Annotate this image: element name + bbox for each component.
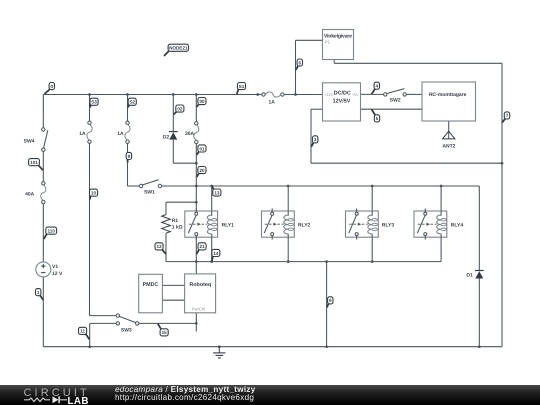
ground symbol (213, 347, 225, 358)
svg-text:14: 14 (213, 251, 219, 256)
fuse F 1A on bus (262, 92, 284, 106)
wire R1 branch (166, 202, 196, 261)
wire SW2 to RC receiver (406, 93, 422, 95)
svg-text:7: 7 (506, 113, 509, 118)
junction dots on +12V bus (88, 93, 297, 96)
svg-text:40A: 40A (25, 192, 35, 198)
wire S2 column (128, 95, 140, 187)
svg-text:15: 15 (162, 330, 168, 335)
svg-text:R1: R1 (172, 218, 179, 224)
wire RLY2 coil (287, 186, 289, 262)
resistor R1 1k (162, 215, 183, 234)
svg-text:SW1: SW1 (144, 189, 155, 195)
wire node 9 ground branch (326, 262, 328, 347)
junction dots on coil bottom rail (195, 260, 374, 263)
wire ANT2 stem (448, 121, 450, 139)
antenna ANT2 (442, 131, 455, 150)
module PMDC motor (139, 274, 163, 313)
module DC/DC converter 12V/5V (323, 83, 361, 121)
svg-text:V1: V1 (52, 264, 58, 270)
node 3 (311, 136, 318, 147)
svg-text:21: 21 (200, 244, 206, 249)
svg-text:12: 12 (157, 244, 163, 249)
fuse F 30A (185, 122, 199, 144)
wire RLY4 coil (440, 186, 442, 262)
node 00 (197, 98, 206, 108)
svg-text:RLY3: RLY3 (382, 222, 395, 228)
svg-text:13: 13 (214, 190, 220, 195)
node 0 (45, 83, 55, 95)
relay RLY1 (185, 208, 234, 239)
svg-text:20: 20 (199, 168, 205, 173)
node 5 (372, 110, 380, 122)
node 13 (212, 186, 221, 196)
relay RLY3 (346, 208, 395, 239)
wire node 6 Vinkelgivare feed (296, 40, 323, 94)
svg-text:LAB: LAB (68, 396, 89, 405)
svg-text:3: 3 (314, 137, 317, 142)
svg-text:PMDC: PMDC (143, 282, 159, 288)
wire relay top rail node 13 (162, 185, 480, 187)
svg-text:+5V: +5V (352, 93, 359, 97)
svg-text:ANT2: ANT2 (442, 144, 455, 150)
node 110 (44, 227, 57, 239)
svg-text:8: 8 (128, 154, 131, 159)
wire D1 column (478, 186, 480, 347)
node S3 (90, 98, 98, 107)
node 12 (155, 243, 166, 254)
svg-text:1A: 1A (268, 100, 275, 106)
svg-text:P1: P1 (325, 40, 331, 45)
node 01 (197, 145, 206, 155)
wire main +12V bus (43, 94, 322, 96)
wire RLY1 switch to Roboteq node 21 (195, 236, 197, 274)
svg-text:00: 00 (199, 99, 205, 104)
node 20 (197, 167, 206, 178)
svg-text:6: 6 (299, 60, 302, 65)
svg-text:5: 5 (376, 116, 379, 121)
voltage source V1 12V battery (36, 262, 63, 277)
switch SW4 (24, 128, 48, 152)
fuse F 1A on S3 column (79, 121, 92, 143)
svg-text:12V/5V: 12V/5V (333, 98, 351, 104)
node 9 (327, 297, 333, 308)
svg-text:RLY2: RLY2 (298, 222, 311, 228)
node 7 (502, 112, 509, 123)
diode D1 (466, 271, 483, 279)
svg-text:1 kΩ: 1 kΩ (172, 225, 183, 231)
junction dots on bottom rail (88, 345, 480, 348)
svg-text:RLY1: RLY1 (222, 222, 235, 228)
module RC-momttagare receiver (422, 82, 476, 121)
wire Vinkelgivare return to right rail node 7 (334, 60, 502, 347)
node 15 (158, 324, 168, 336)
node S2 (128, 98, 137, 107)
svg-text:D1: D1 (466, 273, 473, 279)
svg-text:30A: 30A (185, 131, 195, 137)
module Roboteq controller (185, 274, 216, 313)
wire PMDC to Roboteq motor leads (162, 285, 184, 300)
svg-text:12 V: 12 V (52, 271, 63, 277)
svg-text:101: 101 (30, 160, 38, 165)
wire relay coil bottom rail node 14 (196, 261, 441, 263)
junction dot SW3 common at Roboteq pin (195, 322, 198, 325)
svg-text:DC/DC: DC/DC (334, 90, 351, 96)
switch SW1 (139, 180, 161, 196)
svg-text:1A: 1A (79, 131, 86, 137)
node 10 (90, 189, 98, 199)
svg-text:S3: S3 (91, 100, 97, 105)
wire left battery column (42, 95, 44, 347)
wire 30A fuse column node 00-01-20 (195, 95, 197, 213)
footer title text (115, 386, 256, 403)
svg-text:1: 1 (37, 290, 40, 295)
svg-text:9: 9 (329, 298, 332, 303)
footer bar (0, 385, 540, 405)
wire node 11 branch (90, 323, 117, 346)
wire DC/DC to RC receiver node 5 (361, 108, 423, 110)
junction dot D2 to fuse column (195, 162, 198, 165)
node 21 (197, 243, 207, 254)
junction dots on relay top rail (195, 185, 443, 188)
svg-text:SW3: SW3 (121, 328, 132, 334)
junction dot node 3 rail meets right rail (501, 162, 504, 165)
svg-text:NODE21: NODE21 (169, 46, 188, 51)
node S1 (237, 83, 246, 95)
svg-text:11: 11 (80, 329, 85, 334)
svg-text:S2: S2 (129, 100, 135, 105)
node NODE21 (164, 44, 189, 56)
svg-text:SW4: SW4 (24, 139, 35, 145)
wire S3 column (90, 95, 117, 316)
wire RLY1 coil (211, 186, 213, 262)
svg-text:0: 0 (51, 84, 54, 89)
svg-text:01: 01 (199, 146, 205, 151)
CircuitLab logo (0, 385, 110, 405)
wire Roboteq PwrCtrl pin stub (195, 313, 197, 332)
relay RLY2 (262, 208, 311, 239)
svg-text:RLY4: RLY4 (451, 222, 464, 228)
node 6 (296, 59, 303, 70)
switch SW3 SPDT (116, 314, 139, 334)
wire DC/DC +5V to SW2 (361, 93, 384, 95)
svg-text:Roboteq: Roboteq (189, 282, 211, 288)
wire D2 column node 02 (173, 95, 196, 164)
wire DC/DC return node 3 (311, 109, 502, 163)
svg-text:RC-momttagare: RC-momttagare (429, 92, 467, 98)
svg-text:+12V: +12V (324, 93, 333, 97)
switch SW2 (384, 89, 407, 104)
fuse F 1A on S2 column (117, 121, 130, 143)
node 1 (36, 289, 44, 300)
svg-text:110: 110 (47, 229, 55, 234)
node 11 (79, 327, 90, 339)
junction dot R1 top (195, 201, 198, 204)
fuse F 40A (25, 182, 46, 204)
node 14 (212, 249, 220, 261)
svg-text:D2: D2 (163, 135, 170, 141)
svg-text:PwrCtrl: PwrCtrl (192, 306, 206, 311)
node 02 (174, 105, 184, 115)
relay RLY4 (414, 208, 463, 239)
svg-text:10: 10 (91, 191, 97, 196)
svg-text:SW2: SW2 (390, 98, 401, 104)
node 8 (126, 152, 131, 162)
node 4 (372, 82, 380, 94)
svg-text:S1: S1 (239, 84, 245, 89)
diode D2 (163, 132, 178, 141)
svg-text:1A: 1A (117, 131, 124, 137)
module Vinkelgivare P1 (323, 30, 354, 60)
wire bottom ground rail (43, 346, 502, 348)
wire RLY3 coil (371, 186, 373, 262)
svg-text:4: 4 (376, 84, 379, 89)
svg-text:02: 02 (177, 106, 183, 111)
node 101 (29, 159, 43, 171)
wire SW3 common to Roboteq (139, 322, 196, 324)
